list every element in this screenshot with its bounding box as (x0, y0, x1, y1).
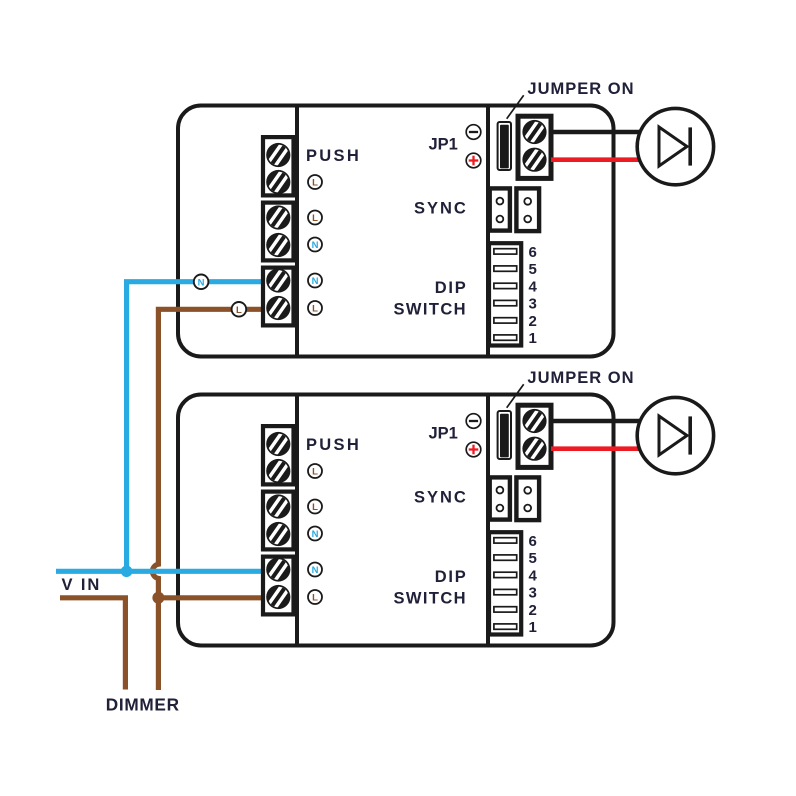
screw terminal 1 (266, 432, 290, 456)
polarity plus symbol (466, 442, 481, 457)
output terminal block (518, 116, 551, 178)
wire red to LED (551, 157, 642, 162)
svg-text:L: L (312, 467, 318, 478)
leader line to jumper (507, 95, 524, 119)
screw terminal 6 (266, 585, 290, 609)
input terminal block 2 (263, 203, 294, 261)
wire black to LED (551, 130, 642, 135)
screw terminal 4 (266, 233, 290, 257)
DIP slot 4 (494, 572, 517, 577)
DIP slot 2 (494, 318, 517, 323)
pin label N (neutral) (308, 563, 322, 577)
LED diode triangle (659, 127, 687, 166)
DIP slot 1 (494, 335, 517, 340)
sync connector 2 (516, 188, 539, 231)
svg-text:V IN: V IN (62, 576, 102, 594)
wire red to LED (551, 446, 642, 451)
wire L brown: return riser from dimmer with hop over blue wire, up to module 1 L input (152, 309, 270, 690)
pin label L (live) (308, 301, 322, 315)
input terminal block 2 (263, 492, 294, 550)
pin label N (neutral) (308, 274, 322, 288)
sync pin 2a (524, 487, 531, 494)
DIP switch block (489, 243, 521, 345)
svg-text:DIP: DIP (435, 568, 468, 586)
module 2 case outline (178, 395, 614, 646)
DIP slot 3 (494, 300, 517, 305)
svg-text:N: N (312, 276, 319, 287)
input terminal block 3 (263, 557, 294, 615)
DIP slot 2 (494, 607, 517, 612)
svg-text:N: N (198, 277, 205, 288)
svg-text:SYNC: SYNC (414, 488, 468, 506)
pin label N (neutral in) (308, 238, 322, 252)
sync pin 1b (497, 216, 504, 223)
svg-text:JP1: JP1 (429, 425, 458, 443)
screw terminal 3 (266, 205, 290, 229)
svg-text:3: 3 (529, 296, 537, 313)
wire N blue: riser up to module 1 N input (127, 282, 270, 572)
sync pin 2b (524, 505, 531, 512)
DIP switch block (489, 532, 521, 634)
pin label L (line in) (308, 211, 322, 225)
svg-text:3: 3 (529, 585, 537, 602)
DIP slot 3 (494, 589, 517, 594)
output screw terminal - (522, 148, 546, 172)
input terminal block 1 (263, 426, 294, 484)
svg-text:L: L (312, 213, 318, 224)
module 1 case outline (178, 106, 614, 357)
internal partition line (left) (295, 393, 299, 647)
DIP slot 6 (494, 249, 517, 254)
svg-text:PUSH: PUSH (306, 436, 361, 454)
input terminal block 3 (263, 268, 294, 326)
LED diode triangle (659, 416, 687, 455)
svg-text:L: L (312, 304, 318, 315)
screw terminal 1 (266, 143, 290, 167)
wire L brown: junction feed to module 2 L input (158, 595, 270, 600)
sync connector 1 (490, 477, 510, 519)
svg-text:6: 6 (529, 244, 537, 261)
svg-text:6: 6 (529, 533, 537, 550)
jumper JP1 outline (498, 411, 511, 459)
internal partition line (right) (486, 104, 490, 358)
sync pin 1a (497, 487, 504, 494)
polarity minus symbol (466, 125, 481, 140)
polarity minus symbol (466, 414, 481, 429)
pin label L (push) (308, 464, 322, 478)
svg-text:L: L (312, 178, 318, 189)
svg-text:DIMMER: DIMMER (106, 695, 180, 715)
svg-text:DIP: DIP (435, 279, 468, 297)
internal partition line (left) (295, 104, 299, 358)
jumper JP1 outline (498, 122, 511, 170)
DIP slot 4 (494, 283, 517, 288)
screw terminal 5 (266, 268, 290, 292)
svg-text:L: L (236, 305, 242, 316)
sync pin 2b (524, 216, 531, 223)
pin label L (push) (308, 175, 322, 189)
sync pin 1a (497, 198, 504, 205)
svg-text:N: N (312, 529, 319, 540)
svg-text:5: 5 (529, 550, 537, 567)
DIP slot 5 (494, 266, 517, 271)
output screw terminal + (522, 120, 546, 144)
sync connector 1 (490, 188, 510, 230)
screw terminal 6 (266, 296, 290, 320)
svg-text:5: 5 (529, 261, 537, 278)
jumper JP1 bar (500, 414, 509, 458)
DIP slot 5 (494, 555, 517, 560)
svg-text:4: 4 (529, 567, 538, 584)
LED lamp circle (637, 397, 713, 473)
svg-text:L: L (312, 593, 318, 604)
screw terminal 2 (266, 459, 290, 483)
output terminal block (518, 405, 551, 467)
svg-text:2: 2 (529, 602, 537, 619)
badge L on module 1 input wire (232, 302, 247, 317)
output screw terminal - (522, 437, 546, 461)
svg-text:2: 2 (529, 313, 537, 330)
LED diode cathode bar (688, 416, 692, 454)
screw terminal 5 (266, 557, 290, 581)
LED lamp circle (637, 108, 713, 184)
leader line to jumper (507, 384, 524, 408)
sync pin 1b (497, 505, 504, 512)
svg-text:N: N (312, 565, 319, 576)
pin label L (line in) (308, 500, 322, 514)
svg-text:SWITCH: SWITCH (394, 301, 467, 319)
sync pin 2a (524, 198, 531, 205)
screw terminal 4 (266, 522, 290, 546)
pin label N (neutral in) (308, 527, 322, 541)
LED diode cathode bar (688, 127, 692, 165)
node: blue junction dot (121, 566, 133, 578)
svg-text:4: 4 (529, 278, 538, 295)
svg-text:SYNC: SYNC (414, 199, 468, 217)
svg-text:1: 1 (529, 619, 537, 636)
svg-text:SWITCH: SWITCH (394, 590, 467, 608)
screw terminal 3 (266, 494, 290, 518)
wire black to LED (551, 419, 642, 424)
polarity plus symbol (466, 153, 481, 168)
wire L brown: V IN drop to dimmer switch (60, 598, 125, 690)
svg-text:PUSH: PUSH (306, 147, 361, 165)
svg-text:JP1: JP1 (429, 136, 458, 154)
badge N on module 1 input wire (194, 275, 209, 290)
wire N blue: V IN horizontal feed to module 2 (56, 569, 270, 574)
svg-text:JUMPER ON: JUMPER ON (527, 369, 634, 387)
jumper JP1 bar (500, 125, 509, 169)
DIP slot 6 (494, 538, 517, 543)
sync connector 2 (516, 477, 539, 520)
output screw terminal + (522, 409, 546, 433)
internal partition line (right) (486, 393, 490, 647)
DIP slot 1 (494, 624, 517, 629)
pin label L (live) (308, 590, 322, 604)
svg-text:JUMPER ON: JUMPER ON (527, 80, 634, 98)
svg-text:N: N (312, 240, 319, 251)
screw terminal 2 (266, 170, 290, 194)
node: brown junction dot (152, 592, 164, 604)
input terminal block 1 (263, 137, 294, 195)
svg-text:1: 1 (529, 330, 537, 347)
svg-text:L: L (312, 502, 318, 513)
